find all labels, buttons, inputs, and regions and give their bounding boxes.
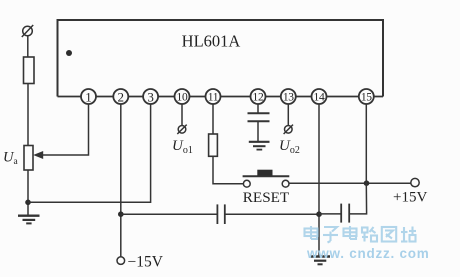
电	[305, 226, 318, 239]
resistor R1	[24, 57, 35, 84]
junction node pin14 / bus2	[316, 211, 322, 217]
terminal Uo1 under pin 10	[177, 104, 186, 134]
pin 15	[359, 89, 374, 104]
terminal +15V (open circle)	[411, 178, 419, 186]
svg-text:+15V: +15V	[393, 190, 427, 206]
svg-text:www. cndzz. com: www. cndzz. com	[306, 246, 430, 261]
pin 11	[206, 89, 221, 104]
capacitor C1 (in bus2)	[217, 204, 224, 224]
wire pin 14 down to ground	[318, 104, 320, 256]
wire terminal to R1	[27, 36, 29, 57]
电	[344, 226, 357, 239]
svg-text:RESET: RESET	[243, 189, 290, 206]
ground under C2	[249, 142, 270, 150]
wire R2 to RESET left contact	[213, 156, 243, 183]
pin 12	[251, 89, 266, 104]
svg-text:2: 2	[118, 89, 125, 104]
terminal input (open circle with slash) top left	[22, 25, 33, 37]
terminal -15V (open circle)	[117, 257, 125, 265]
junction node at pot bottom	[25, 200, 31, 206]
wire pin 2 down to -15V terminal	[120, 104, 122, 257]
pin 14	[312, 89, 327, 104]
IC index dot	[66, 50, 72, 56]
wire pin 15 down through +15V node to capacitor C3	[349, 104, 366, 214]
svg-text:3: 3	[147, 89, 154, 104]
svg-text:−15V: −15V	[128, 254, 164, 271]
wire R1 to potentiometer	[27, 84, 29, 146]
wiper wire from pin 1 with arrowhead	[33, 104, 88, 159]
pin 13	[281, 89, 296, 104]
IC U1 HL601A body	[58, 20, 384, 97]
svg-text:13: 13	[283, 92, 294, 104]
resistor R2	[209, 134, 218, 156]
ground under pin 14 line	[311, 257, 331, 265]
wire node to pin 3 (bus1)	[28, 104, 151, 202]
watermark Chinese text 电子电路图站	[305, 226, 417, 243]
pin 3	[143, 89, 158, 104]
wire pin 11 to resistor R2	[212, 104, 214, 134]
svg-text:14: 14	[314, 92, 325, 104]
svg-text:12: 12	[253, 92, 264, 104]
svg-text:15: 15	[361, 92, 372, 104]
图	[382, 227, 396, 242]
junction node pin2 / bus2	[118, 211, 124, 217]
svg-text:10: 10	[177, 92, 188, 104]
capacitor C2 under pin 12	[248, 104, 270, 141]
svg-text:11: 11	[208, 92, 219, 104]
wire pot bottom to ground node	[27, 170, 29, 216]
wire bus2 right segment to pin14 node	[225, 213, 319, 215]
pin 1	[81, 89, 96, 104]
wire RESET right contact to +15V terminal	[289, 182, 411, 184]
pushbutton RESET	[243, 170, 290, 187]
IC bottom pin rail wire	[58, 96, 384, 98]
子	[323, 227, 338, 243]
ground under potentiometer	[18, 216, 40, 224]
pin 10	[175, 89, 190, 104]
terminal Uo2 under pin 13	[284, 104, 293, 134]
svg-text:1: 1	[85, 89, 92, 104]
junction node pin15 line / +15V wire	[364, 180, 370, 186]
路	[362, 227, 377, 242]
wire C3 left plate to pin14 node	[319, 213, 341, 215]
potentiometer RP (Ua) body	[24, 146, 33, 171]
capacitor C3	[341, 204, 349, 223]
pin 2	[113, 89, 128, 104]
svg-text:HL601A: HL601A	[182, 32, 241, 51]
wire bus2 left segment to capacitor C1	[121, 213, 218, 215]
站	[401, 227, 416, 242]
